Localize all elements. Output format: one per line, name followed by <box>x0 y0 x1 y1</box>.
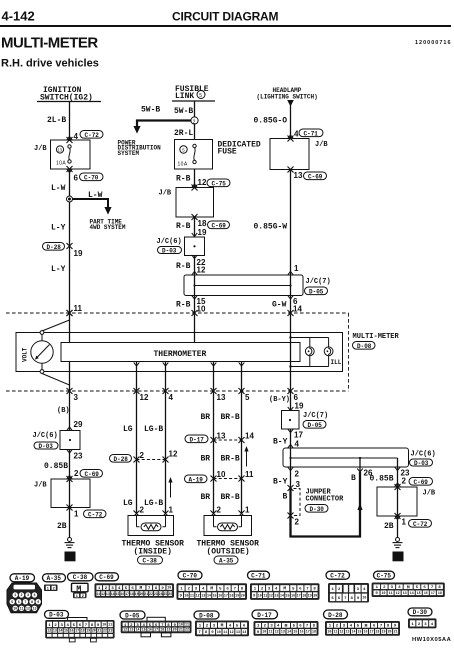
wire 5W-B <box>194 101 196 140</box>
svg-text:20: 20 <box>313 593 317 597</box>
connector oval D-03 left <box>34 442 58 450</box>
svg-text:4WD SYSTEM: 4WD SYSTEM <box>90 224 126 231</box>
svg-text:VOLT: VOLT <box>22 347 29 362</box>
connector oval A-19 mid <box>185 475 208 483</box>
svg-text:21: 21 <box>394 630 398 634</box>
connector D-05 <box>120 611 192 637</box>
connector oval D-30 label <box>305 505 328 513</box>
jumper connector dashed outline <box>294 489 345 516</box>
svg-text:2B: 2B <box>384 522 394 531</box>
connector oval C-70 <box>80 173 104 181</box>
svg-text:J/B: J/B <box>34 482 47 490</box>
wire through to multimeter <box>194 217 196 237</box>
svg-text:J/C(6): J/C(6) <box>411 451 436 459</box>
svg-text:19: 19 <box>166 628 170 632</box>
svg-text:10: 10 <box>382 591 386 595</box>
volt gauge terminal top <box>40 331 44 335</box>
svg-text:16: 16 <box>120 592 124 596</box>
svg-text:21: 21 <box>144 592 148 596</box>
svg-text:13: 13 <box>217 393 226 402</box>
svg-text:0.85G-O: 0.85G-O <box>254 117 288 126</box>
svg-text:LG-B: LG-B <box>144 499 163 508</box>
svg-text:20: 20 <box>173 628 177 632</box>
svg-text:19: 19 <box>235 593 239 597</box>
connector oval C-75 <box>207 179 230 187</box>
connector oval D-28 mid <box>110 455 132 463</box>
connector A-19 <box>7 574 42 613</box>
connector oval D-03 right <box>410 459 433 467</box>
svg-text:L-Y: L-Y <box>51 265 66 274</box>
svg-text:17: 17 <box>306 630 310 634</box>
svg-text:6: 6 <box>18 600 20 604</box>
svg-text:1: 1 <box>47 587 49 591</box>
wire through J/B right <box>397 487 399 539</box>
svg-text:14: 14 <box>410 591 414 595</box>
wire through J/B left <box>69 479 71 538</box>
svg-text:1: 1 <box>14 593 16 597</box>
svg-text:MULTI-METER: MULTI-METER <box>1 35 98 52</box>
connector oval D-17 <box>185 435 208 443</box>
connector C-72 <box>326 571 369 602</box>
svg-text:D-08: D-08 <box>357 343 372 350</box>
svg-text:BR-B: BR-B <box>221 455 240 464</box>
svg-text:B: B <box>283 493 288 502</box>
svg-text:BR-B: BR-B <box>221 493 240 502</box>
svg-text:3: 3 <box>74 393 79 402</box>
nodes 2 / 1 inside sensor <box>134 506 174 517</box>
svg-text:20: 20 <box>241 593 245 597</box>
svg-text:1: 1 <box>245 506 250 515</box>
wire B-Y to wide J/C(6) <box>273 429 303 449</box>
svg-text:11: 11 <box>223 630 227 634</box>
svg-text:10: 10 <box>167 586 171 590</box>
svg-text:L-W: L-W <box>88 191 103 200</box>
svg-text:2: 2 <box>82 595 84 599</box>
svg-text:2: 2 <box>53 587 55 591</box>
svg-text:11: 11 <box>190 593 194 597</box>
left ground wire (B) <box>69 391 71 431</box>
svg-text:13: 13 <box>201 593 205 597</box>
ground symbol left <box>65 538 75 548</box>
junction block J/B (fusible) <box>159 185 214 221</box>
svg-text:C-38: C-38 <box>143 558 158 565</box>
svg-text:J/C(6): J/C(6) <box>157 238 182 246</box>
svg-text:1: 1 <box>76 595 78 599</box>
svg-text:5W-B: 5W-B <box>174 107 193 116</box>
svg-text:(INSIDE): (INSIDE) <box>134 548 172 557</box>
svg-text:D-03: D-03 <box>49 612 64 619</box>
svg-text:D-05: D-05 <box>308 422 323 429</box>
ground designator 5 (right) <box>393 552 404 562</box>
junction block J/B (ignition) <box>34 140 90 169</box>
junction block J/B left bottom <box>34 476 90 511</box>
svg-text:11: 11 <box>96 592 100 596</box>
svg-text:CIRCUIT DIAGRAM: CIRCUIT DIAGRAM <box>172 10 279 24</box>
svg-text:LG-B: LG-B <box>144 425 163 434</box>
svg-text:1: 1 <box>74 510 79 519</box>
node 11 <box>67 304 83 316</box>
exit node 23 / 0.85B <box>370 467 410 487</box>
svg-text:M: M <box>221 623 224 629</box>
svg-text:C-71: C-71 <box>304 130 319 137</box>
svg-text:12: 12 <box>275 630 279 634</box>
svg-text:D-03: D-03 <box>162 248 177 255</box>
svg-text:C-72: C-72 <box>330 573 345 580</box>
svg-text:12: 12 <box>396 591 400 595</box>
svg-text:10: 10 <box>184 593 188 597</box>
svg-text:20: 20 <box>388 630 392 634</box>
svg-text:12: 12 <box>26 607 30 611</box>
svg-text:16: 16 <box>300 630 304 634</box>
connector oval C-72 <box>80 131 103 139</box>
svg-text:8: 8 <box>31 600 33 604</box>
node 29 <box>67 420 83 431</box>
svg-text:D-05: D-05 <box>309 288 324 295</box>
exit node 26 (B) <box>351 467 373 483</box>
svg-text:17: 17 <box>294 431 303 440</box>
svg-text:14: 14 <box>293 305 302 314</box>
svg-text:D-08: D-08 <box>199 612 214 619</box>
sensor wires inside multimeter <box>137 362 242 392</box>
node 19 <box>192 228 207 237</box>
svg-text:D-30: D-30 <box>413 609 428 616</box>
svg-text:23: 23 <box>74 452 83 461</box>
svg-text:11: 11 <box>108 623 112 627</box>
connector oval C-38 <box>138 556 163 565</box>
svg-text:10: 10 <box>327 630 331 634</box>
svg-text:11: 11 <box>263 593 267 597</box>
wire headlamp into lamp circuit <box>290 313 292 338</box>
svg-text:C-70: C-70 <box>183 573 198 580</box>
svg-text:13: 13 <box>129 628 133 632</box>
connector oval C-71 <box>299 129 323 137</box>
joint connector J/C(6) small (fusible col) <box>157 237 205 256</box>
headlamp feed arrow <box>287 100 294 107</box>
svg-text:120000716: 120000716 <box>415 40 452 46</box>
svg-text:16: 16 <box>218 593 222 597</box>
headlamp label <box>257 87 318 101</box>
svg-text:13: 13 <box>217 432 226 441</box>
sensor wire pin chevrons below thermometer <box>134 362 245 366</box>
node 18 C-69 <box>176 219 230 231</box>
svg-text:15: 15 <box>286 593 290 597</box>
svg-text:16: 16 <box>291 593 295 597</box>
crossing D-17 (13 / 14) <box>211 432 255 444</box>
connector D-28 <box>324 610 401 636</box>
svg-text:24: 24 <box>159 592 163 596</box>
svg-text:D-03: D-03 <box>39 443 54 450</box>
svg-text:13: 13 <box>281 630 285 634</box>
svg-text:10: 10 <box>262 630 266 634</box>
svg-text:C-72: C-72 <box>413 521 428 528</box>
svg-text:J/C(6): J/C(6) <box>33 432 58 440</box>
connector oval C-69 right <box>409 478 433 486</box>
svg-text:12: 12 <box>339 630 343 634</box>
svg-text:13: 13 <box>236 630 240 634</box>
illumination lamp bus bottom <box>289 356 328 368</box>
svg-text:12: 12 <box>198 178 207 187</box>
svg-text:10: 10 <box>13 607 17 611</box>
svg-text:2L-B: 2L-B <box>47 116 66 125</box>
svg-text:C-71: C-71 <box>251 573 266 580</box>
node 23 <box>67 449 83 460</box>
svg-text:26: 26 <box>168 592 172 596</box>
svg-text:14: 14 <box>245 432 254 441</box>
power distribution system label <box>118 140 162 157</box>
svg-text:M: M <box>140 585 143 591</box>
svg-text:22: 22 <box>185 628 189 632</box>
jumper connector crossing top <box>288 485 294 491</box>
svg-text:14: 14 <box>351 630 355 634</box>
svg-text:22: 22 <box>103 629 107 633</box>
node 4 (C-71) <box>288 130 299 139</box>
svg-text:J/B: J/B <box>34 145 47 153</box>
volt gauge branch top <box>42 320 70 331</box>
svg-text:C-69: C-69 <box>85 471 100 478</box>
svg-text:D-03: D-03 <box>414 460 429 467</box>
wire into multimeter from node 11 <box>69 313 71 343</box>
svg-text:20: 20 <box>92 629 96 633</box>
svg-text:(B-Y): (B-Y) <box>269 396 290 404</box>
svg-text:13: 13 <box>294 171 303 180</box>
svg-text:4: 4 <box>34 593 36 597</box>
flow arrow up (LG-B) <box>168 477 172 498</box>
svg-text:M: M <box>285 623 288 629</box>
header rule <box>0 25 451 27</box>
bottom node labels <box>74 393 299 402</box>
svg-text:9: 9 <box>37 600 39 604</box>
svg-text:7: 7 <box>24 600 26 604</box>
crossing marks at multimeter bottom <box>67 388 294 394</box>
wire lamp return down <box>290 338 292 392</box>
svg-text:(LIGHTING SWITCH): (LIGHTING SWITCH) <box>257 94 318 101</box>
svg-text:17: 17 <box>297 593 301 597</box>
svg-text:B-Y: B-Y <box>273 478 288 487</box>
svg-text:5: 5 <box>245 393 250 402</box>
svg-text:11: 11 <box>74 304 83 313</box>
svg-text:12: 12 <box>169 450 178 459</box>
svg-text:19: 19 <box>74 249 83 258</box>
connector oval D-08 <box>353 342 376 350</box>
svg-text:23: 23 <box>154 592 158 596</box>
svg-text:12: 12 <box>196 593 200 597</box>
connector D-03 <box>45 611 115 642</box>
branch wire 5W-B to power distribution <box>134 106 191 133</box>
node 19 crossing D-28 <box>67 243 83 258</box>
svg-text:18: 18 <box>438 591 442 595</box>
svg-text:0.85B: 0.85B <box>370 475 394 484</box>
splice junction 2 <box>191 117 198 125</box>
illumination lamp 2 <box>324 347 333 356</box>
jumper connector crossing bottom and node 2 <box>288 513 300 527</box>
svg-text:10: 10 <box>217 470 226 479</box>
svg-text:SYSTEM: SYSTEM <box>118 150 140 157</box>
svg-text:C-69: C-69 <box>212 222 227 229</box>
svg-text:18: 18 <box>130 592 134 596</box>
svg-text:D-28: D-28 <box>328 612 343 619</box>
connector C-71 <box>248 571 320 600</box>
svg-text:19: 19 <box>135 592 139 596</box>
svg-text:18: 18 <box>160 628 164 632</box>
svg-text:5: 5 <box>199 93 202 99</box>
wire 0.85B <box>69 450 71 480</box>
svg-text:12: 12 <box>230 630 234 634</box>
svg-text:R-B: R-B <box>176 222 191 231</box>
svg-text:J/C(7): J/C(7) <box>303 412 328 420</box>
wire labels LG LG-B <box>123 425 163 434</box>
ground designator 5 (left) <box>65 552 76 562</box>
connector oval D-05 right <box>303 421 326 429</box>
svg-text:2B: 2B <box>57 522 67 531</box>
svg-text:17: 17 <box>154 628 158 632</box>
svg-text:5: 5 <box>396 553 401 562</box>
svg-text:18: 18 <box>376 630 380 634</box>
svg-text:18: 18 <box>230 593 234 597</box>
wire labels BR BR-B mid <box>201 455 240 464</box>
svg-text:15: 15 <box>213 593 217 597</box>
svg-text:14: 14 <box>58 629 62 633</box>
crossing D-28 (2 / 12) <box>134 450 178 463</box>
wire labels BR BR-B <box>201 413 240 422</box>
svg-text:2: 2 <box>140 451 145 460</box>
svg-text:2: 2 <box>295 518 300 527</box>
multi-meter dashed box <box>6 313 349 391</box>
svg-text:D-28: D-28 <box>47 244 62 251</box>
svg-text:D-17: D-17 <box>190 436 205 443</box>
svg-text:J/B: J/B <box>159 190 172 198</box>
svg-text:25: 25 <box>163 592 167 596</box>
svg-text:(OUTSIDE): (OUTSIDE) <box>207 548 250 557</box>
svg-text:12: 12 <box>269 593 273 597</box>
thermo sensor (outside) box <box>204 516 252 536</box>
thermometer box <box>61 343 300 362</box>
connector oval D-05 (wide box) <box>305 287 328 295</box>
svg-text:18: 18 <box>81 629 85 633</box>
svg-text:L-W: L-W <box>51 184 66 193</box>
wire R-B to J/B <box>194 169 196 188</box>
svg-text:10: 10 <box>179 623 183 627</box>
dedicated fuse box <box>175 140 213 170</box>
svg-text:R-B: R-B <box>176 175 191 184</box>
wire 0.85G-W <box>290 170 292 276</box>
splice junction circle <box>67 196 73 202</box>
svg-text:6: 6 <box>74 174 79 183</box>
node 13 C-69 <box>294 171 327 180</box>
svg-text:J/B: J/B <box>423 490 436 498</box>
thermo sensor (inside) box <box>128 516 174 536</box>
svg-text:10: 10 <box>362 596 366 600</box>
node 2 C-69 left <box>67 469 103 479</box>
svg-text:15: 15 <box>142 628 146 632</box>
svg-text:C-72: C-72 <box>88 511 103 518</box>
wire ignition 2L-B <box>69 102 71 141</box>
svg-text:THERMOMETER: THERMOMETER <box>154 350 207 359</box>
svg-text:1: 1 <box>402 518 407 527</box>
svg-text:11: 11 <box>389 591 393 595</box>
svg-text:A-19: A-19 <box>15 575 30 582</box>
svg-text:14: 14 <box>207 593 211 597</box>
right return wire (B-Y) <box>290 391 292 411</box>
svg-text:15: 15 <box>293 630 297 634</box>
svg-text:17: 17 <box>75 629 79 633</box>
node 4 <box>67 132 79 141</box>
svg-text:A-35: A-35 <box>47 575 62 582</box>
svg-text:5: 5 <box>68 553 73 562</box>
nodes 2 / 1 outside sensor <box>211 506 251 517</box>
svg-text:10A: 10A <box>56 161 66 167</box>
svg-text:19: 19 <box>86 629 90 633</box>
svg-text:4: 4 <box>295 440 300 449</box>
svg-text:2: 2 <box>140 506 145 515</box>
svg-text:16: 16 <box>424 591 428 595</box>
svg-text:19: 19 <box>382 630 386 634</box>
svg-text:2: 2 <box>193 119 196 125</box>
illumination lamp 1 <box>305 347 314 356</box>
svg-text:BR-B: BR-B <box>221 413 240 422</box>
node 1 into J/C(7) <box>288 264 299 275</box>
flow arrow up on jumper return <box>357 503 362 510</box>
svg-text:16: 16 <box>148 628 152 632</box>
svg-text:A-19: A-19 <box>189 476 204 483</box>
svg-text:D-05: D-05 <box>125 612 140 619</box>
svg-text:1: 1 <box>294 264 299 273</box>
svg-text:23: 23 <box>109 629 113 633</box>
svg-text:B: B <box>351 474 356 483</box>
svg-text:FUSE: FUSE <box>218 148 237 157</box>
svg-text:21: 21 <box>97 629 101 633</box>
svg-text:14: 14 <box>280 593 284 597</box>
node 12 <box>192 178 207 188</box>
svg-text:L-Y: L-Y <box>51 224 66 233</box>
svg-text:M: M <box>210 586 213 592</box>
svg-text:0.85G-W: 0.85G-W <box>254 223 288 232</box>
thermo sensor (inside) labels <box>122 540 185 557</box>
svg-text:10: 10 <box>258 593 262 597</box>
node 6 <box>67 169 79 183</box>
junction block J/B (headlamp) <box>270 136 328 173</box>
svg-text:17: 17 <box>431 591 435 595</box>
svg-text:13: 13 <box>403 591 407 595</box>
svg-text:4: 4 <box>169 393 174 402</box>
svg-text:19: 19 <box>308 593 312 597</box>
svg-text:2R-L: 2R-L <box>174 129 193 138</box>
svg-text:A-35: A-35 <box>219 558 234 565</box>
jumper return wire (thick) <box>291 472 361 537</box>
svg-text:5W-B: 5W-B <box>141 106 160 115</box>
svg-text:D-30: D-30 <box>310 506 325 513</box>
wire labels LG LG-B lower <box>123 499 163 508</box>
svg-text:13: 13 <box>345 630 349 634</box>
fusible link label <box>172 85 215 101</box>
svg-text:10: 10 <box>217 630 221 634</box>
svg-text:12: 12 <box>140 393 149 402</box>
svg-text:BR: BR <box>201 455 211 464</box>
connector C-70 <box>177 571 248 600</box>
svg-text:11: 11 <box>185 623 189 627</box>
connector D-17 <box>252 610 319 636</box>
svg-text:M: M <box>407 584 410 590</box>
wire G-W into multimeter <box>272 295 302 313</box>
svg-text:16: 16 <box>70 629 74 633</box>
svg-text:11: 11 <box>268 630 272 634</box>
svg-text:12: 12 <box>47 629 51 633</box>
svg-text:G-W: G-W <box>272 301 287 310</box>
svg-text:16: 16 <box>364 630 368 634</box>
svg-text:4-142: 4-142 <box>2 9 35 24</box>
svg-text:2: 2 <box>402 477 407 486</box>
svg-text:M: M <box>365 623 368 629</box>
svg-text:15: 15 <box>64 629 68 633</box>
